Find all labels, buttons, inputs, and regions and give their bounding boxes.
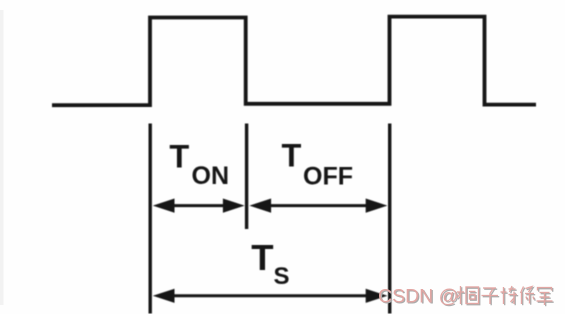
node: dimension line at period end (second rising edge marker) [388, 124, 391, 314]
svg-text:CSDN @: CSDN @ [378, 286, 458, 308]
node: dimension line at T_ON end (falling edge marker) [245, 124, 248, 230]
node: dimension line at t=0 (rising edge marker) [148, 124, 151, 314]
svg-text:T: T [251, 237, 273, 278]
label T_ON [169, 139, 229, 191]
军 [537, 288, 553, 306]
wire: T_S double-headed dimension arrow (full period) [153, 289, 388, 303]
svg-text:T: T [169, 139, 189, 175]
将 [501, 286, 518, 304]
label T_OFF [282, 138, 354, 191]
wire: square-wave trace (PWM waveform) [52, 17, 536, 106]
faint left video edge band [0, 10, 4, 305]
hand-drawn CJK glyphs 桐子将你军 [458, 287, 554, 306]
label T_S [251, 237, 289, 290]
桐 [457, 286, 479, 304]
svg-text:ON: ON [192, 162, 230, 190]
svg-text:OFF: OFF [303, 163, 353, 191]
wire: T_OFF double-headed dimension arrow [249, 199, 387, 213]
svg-text:S: S [274, 263, 290, 290]
label watermark CSDN @桐子将你军 [378, 286, 554, 309]
你 [521, 287, 535, 305]
子 [482, 288, 499, 304]
wire: T_ON double-headed dimension arrow [153, 199, 245, 213]
svg-text:T: T [282, 138, 302, 174]
